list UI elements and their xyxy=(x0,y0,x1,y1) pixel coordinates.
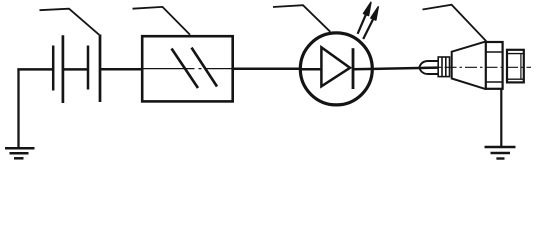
wire between battery cells xyxy=(63,68,88,71)
LED triangle (anode) xyxy=(321,47,350,86)
slash mark 2 inside box xyxy=(192,48,218,87)
centre line (dash-dot) through box xyxy=(144,68,233,70)
photodetector stud (nut) xyxy=(507,50,524,83)
modulator box U1 xyxy=(142,36,233,101)
leader line to box xyxy=(133,7,191,35)
wire box-to-LED xyxy=(233,68,300,71)
light arrow 2 xyxy=(363,7,378,39)
wire flange-to-ground xyxy=(500,88,502,146)
leader line to detector xyxy=(423,5,487,42)
slash mark 1 inside box xyxy=(172,49,199,89)
photodetector cone body xyxy=(452,42,486,90)
light arrow 1 xyxy=(358,2,371,33)
photodetector flange xyxy=(486,42,503,89)
wire battery-to-box xyxy=(100,68,142,71)
photodetector collar (hatched) xyxy=(438,57,449,77)
wire ground-to-battery xyxy=(17,68,53,71)
leader line to battery xyxy=(40,9,100,35)
LED cathode bar xyxy=(352,48,355,89)
wire LED-to-detector xyxy=(353,68,438,70)
photodetector nose (bullet) xyxy=(419,61,438,74)
ground (right) xyxy=(485,147,516,159)
leader line to LED xyxy=(273,5,330,32)
ground (left) xyxy=(5,69,35,159)
centre line (dash-dot) through detector xyxy=(424,66,531,68)
wire inside LED to anode xyxy=(300,68,323,71)
battery B1 xyxy=(53,35,100,104)
LED D1 circle xyxy=(300,33,372,105)
